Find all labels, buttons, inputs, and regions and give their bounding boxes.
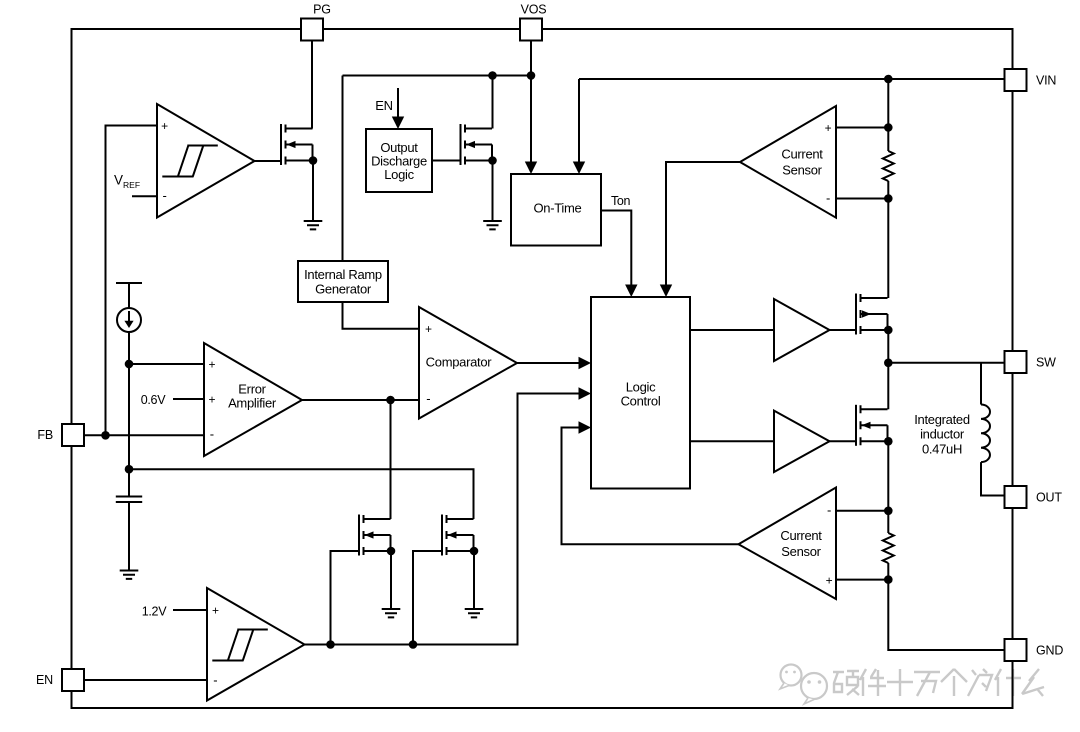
pin OUT: [1005, 486, 1027, 508]
resistor R2 sense bottom: [883, 533, 894, 563]
svg-text:Comparator: Comparator: [426, 355, 493, 370]
svg-text:Internal Ramp: Internal Ramp: [304, 267, 382, 282]
wire current sensor1 output to logic: [666, 162, 740, 286]
wire capacitor to ground: [128, 502, 130, 571]
svg-text:Current: Current: [781, 147, 823, 162]
transistor Q4: [441, 515, 443, 556]
svg-text:Amplifier: Amplifier: [228, 396, 277, 411]
pin VOS: [520, 19, 542, 41]
ground G5: [465, 609, 484, 617]
transistor Q1 PG pull-down: [280, 124, 282, 165]
svg-text:VIN: VIN: [1036, 74, 1056, 88]
wire Q2 drain drop: [492, 76, 494, 129]
svg-text:Sensor: Sensor: [782, 163, 822, 178]
wire EN pin to EN comparator minus: [84, 679, 207, 681]
wire comparator1 output to Q1 gate: [255, 160, 282, 162]
block U4 Internal Ramp Generator: [298, 261, 388, 302]
wire comparator output to logic: [517, 362, 579, 364]
ground G3: [120, 571, 139, 579]
svg-text:+: +: [208, 357, 215, 371]
inductor L1 integrated 0.47uH: [981, 405, 990, 463]
wire error amplifier plus input: [129, 363, 204, 365]
pin FB: [62, 424, 84, 446]
wire current sensor2 minus lead: [836, 510, 888, 512]
block U3 On-Time: [511, 174, 601, 246]
wire ramp to comparator plus: [343, 302, 420, 329]
wire current sensor2 plus lead: [836, 579, 888, 581]
svg-text:inductor: inductor: [920, 427, 965, 442]
wire PG drain: [311, 41, 313, 129]
wire to Q5 drain: [887, 199, 889, 299]
wire Q3 drain drop: [390, 400, 392, 519]
wire current sensor1 minus lead: [836, 198, 888, 200]
current source I1: [117, 308, 141, 332]
wire current sensor2 output to logic: [562, 428, 739, 545]
svg-text:PG: PG: [313, 3, 331, 17]
svg-text:Generator: Generator: [315, 282, 372, 297]
svg-text:-: -: [213, 672, 217, 687]
watermark text 硬件十万个为什么: [833, 669, 1044, 696]
svg-text:-: -: [827, 502, 831, 517]
wire VOS horizontal: [343, 75, 532, 77]
svg-text:Error: Error: [238, 382, 266, 397]
ground G1: [304, 221, 323, 229]
capacitor C1: [116, 497, 142, 503]
wire R2 stubs: [887, 511, 889, 580]
op-amp U7 Comparator: [419, 307, 517, 419]
wire FB to error amplifier minus: [84, 434, 204, 436]
ground G2: [483, 221, 502, 229]
wire logic output1 to driver1: [690, 329, 774, 331]
driver buffer A1: [774, 299, 830, 361]
wire Q1 source to ground: [312, 161, 314, 222]
op-amp U1 PG comparator with hysteresis: [157, 104, 255, 218]
svg-text:FB: FB: [37, 428, 53, 442]
wire Q3 source to ground: [390, 551, 392, 609]
svg-text:EN: EN: [375, 98, 392, 113]
wire to GND pin: [888, 580, 1004, 650]
wire EN into discharge logic: [397, 88, 399, 118]
svg-text:Sensor: Sensor: [781, 544, 821, 559]
svg-text:Logic: Logic: [384, 167, 414, 182]
wire driver1 to Q5 gate: [830, 329, 857, 331]
wire VOS drop to On-Time: [530, 41, 532, 164]
pin PG: [301, 19, 323, 41]
svg-text:0.47uH: 0.47uH: [922, 442, 962, 457]
wire current sensor1 plus lead: [836, 127, 888, 129]
svg-text:SW: SW: [1036, 356, 1056, 370]
junction dots: [527, 71, 536, 80]
block U2 Output Discharge Logic: [366, 129, 432, 192]
block U5 Logic Control: [591, 297, 690, 489]
svg-text:VOS: VOS: [521, 3, 547, 17]
wire current source branch: [116, 283, 142, 497]
svg-text:OUT: OUT: [1036, 491, 1062, 505]
watermark logo: [780, 665, 827, 705]
op-amp U10 Current Sensor bottom: [739, 488, 837, 600]
wire ramp generator riser: [342, 76, 344, 262]
wire VIN drop to On-Time: [578, 79, 580, 163]
svg-text:Integrated: Integrated: [914, 412, 970, 427]
svg-text:-: -: [210, 427, 214, 442]
wire VIN to current sensor resistor: [887, 79, 889, 128]
svg-text:+: +: [425, 322, 432, 336]
svg-text:+: +: [825, 121, 832, 135]
wire capacitor node to Q4 drain: [129, 469, 474, 519]
svg-text:GND: GND: [1036, 644, 1063, 658]
wire Vref to comparator1 minus: [132, 195, 157, 197]
pin SW: [1005, 351, 1027, 373]
svg-text:+: +: [826, 573, 833, 587]
wire logic output2 to driver2: [690, 440, 774, 442]
wire comparator1 plus input / FB sense: [106, 126, 158, 436]
wire Q5 source to SW node: [887, 330, 889, 363]
pin GND: [1005, 639, 1027, 661]
ground G4: [382, 609, 401, 617]
wire Q6 source down: [887, 441, 889, 511]
svg-text:EN: EN: [36, 673, 53, 687]
op-amp U6 Error Amplifier: [204, 343, 302, 456]
transistor Q2 output discharge: [460, 124, 462, 165]
wire R1 stubs: [887, 128, 889, 199]
wire error amplifier output: [302, 399, 419, 401]
pin VIN: [1005, 69, 1027, 91]
transistor Q6 low-side NMOS: [855, 405, 857, 446]
wire inductor branch: [981, 363, 1005, 496]
svg-text:-: -: [426, 391, 430, 406]
wire Q3 gate link: [331, 551, 361, 645]
wire SW node to Q6 drain: [887, 363, 889, 410]
svg-text:Ton: Ton: [611, 194, 631, 208]
pin EN: [62, 669, 84, 691]
svg-text:-: -: [826, 190, 830, 205]
op-amp U8 EN comparator with hysteresis: [207, 588, 305, 701]
transistor Q5 high-side PMOS: [855, 294, 857, 335]
wire discharge logic to Q2 gate: [432, 160, 461, 162]
wire VIN horizontal: [579, 78, 1005, 80]
op-amp U9 Current Sensor top: [740, 106, 836, 218]
resistor R1 sense top: [883, 151, 894, 181]
driver buffer A2: [774, 411, 830, 472]
svg-text:Control: Control: [621, 394, 661, 409]
svg-text:+: +: [212, 603, 219, 617]
wire Q4 gate link: [413, 551, 443, 645]
wire SW node to SW pin: [888, 362, 1004, 364]
wire EN comparator output chain: [305, 394, 580, 645]
wire Q4 source to ground: [473, 551, 475, 609]
svg-text:Current: Current: [780, 528, 822, 543]
wire Q2 source to ground: [492, 161, 494, 222]
transistor Q3: [358, 515, 360, 556]
svg-text:1.2V: 1.2V: [142, 605, 167, 619]
wire driver2 to Q6 gate: [830, 440, 857, 442]
svg-text:On-Time: On-Time: [534, 201, 582, 216]
wire 0.6V to error amplifier: [173, 398, 204, 400]
svg-text:+: +: [161, 119, 168, 133]
svg-text:Logic: Logic: [626, 380, 656, 395]
svg-text:0.6V: 0.6V: [141, 393, 166, 407]
wire Ton to logic: [601, 211, 631, 287]
svg-text:+: +: [208, 392, 215, 406]
svg-text:-: -: [162, 188, 166, 203]
wire 1.2V to EN comparator: [173, 609, 207, 611]
